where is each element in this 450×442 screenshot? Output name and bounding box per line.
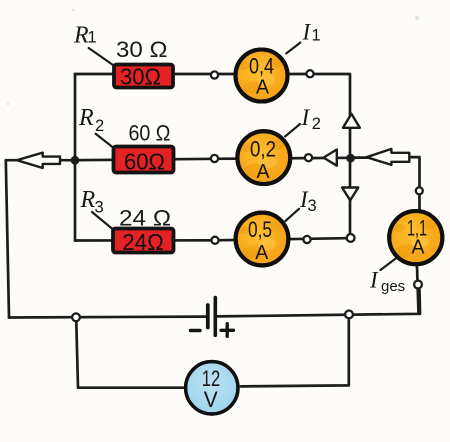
svg-text:ges: ges — [381, 278, 405, 295]
svg-text:24 Ω: 24 Ω — [119, 206, 171, 231]
svg-text:0,4: 0,4 — [249, 54, 274, 79]
svg-text:60Ω: 60Ω — [124, 149, 165, 175]
svg-text:R: R — [78, 105, 94, 131]
svg-text:A: A — [256, 77, 270, 99]
svg-text:1: 1 — [312, 27, 321, 45]
svg-text:24Ω: 24Ω — [122, 229, 164, 255]
svg-text:1: 1 — [88, 29, 97, 47]
svg-text:A: A — [257, 161, 271, 183]
svg-text:I: I — [302, 19, 312, 44]
svg-text:I: I — [301, 105, 311, 130]
svg-text:30Ω: 30Ω — [120, 64, 161, 90]
svg-text:2: 2 — [312, 115, 321, 133]
svg-text:0,2: 0,2 — [250, 137, 276, 162]
svg-text:2: 2 — [95, 117, 104, 135]
svg-text:0,5: 0,5 — [248, 217, 272, 242]
svg-text:A: A — [255, 242, 269, 264]
svg-text:A: A — [412, 237, 426, 259]
svg-text:V: V — [204, 387, 218, 412]
svg-text:30 Ω: 30 Ω — [116, 37, 168, 62]
svg-text:I: I — [369, 268, 379, 293]
svg-text:60 Ω: 60 Ω — [129, 121, 171, 146]
svg-text:R: R — [80, 187, 96, 213]
svg-text:3: 3 — [308, 197, 317, 215]
svg-text:3: 3 — [95, 199, 104, 217]
